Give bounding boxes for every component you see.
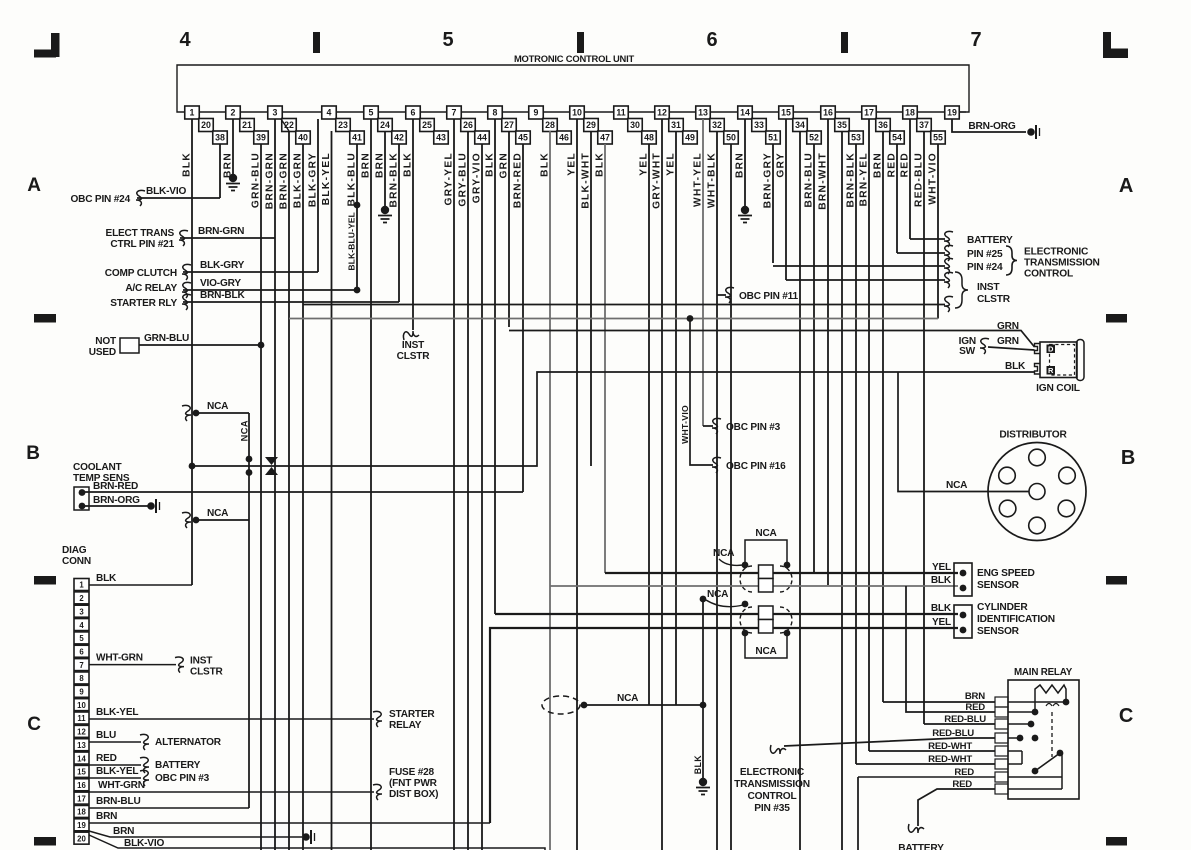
wire pin10 YEL [576,119,578,850]
svg-text:RED-WHT: RED-WHT [928,741,972,752]
svg-text:50: 50 [726,133,736,143]
wire pin38 [219,144,221,198]
svg-text:YEL: YEL [932,617,951,628]
MCU pin box 34 [793,119,808,132]
diag conn pin box 9 [74,685,89,697]
svg-text:18: 18 [77,808,86,817]
ground pin14 [741,206,749,214]
wire diag20 BRN splice [89,831,302,837]
MCU pin box 16 [821,106,836,119]
wire pin34 [799,131,801,850]
MCU pin box 25 [420,119,435,132]
svg-text:5: 5 [369,108,374,118]
wire pin14 BRN [744,119,746,207]
cylinder id sensor box [954,605,972,638]
svg-text:VIO-GRY: VIO-GRY [200,278,241,289]
svg-text:DISTRIBUTOR: DISTRIBUTOR [999,430,1067,441]
svg-text:WHT-BLK: WHT-BLK [707,152,718,208]
diag conn pin box 17 [74,792,89,804]
squiggle battery bottom [908,824,924,833]
svg-text:41: 41 [352,133,362,143]
svg-text:BRN-GRN: BRN-GRN [279,152,290,209]
svg-text:20: 20 [77,834,86,843]
wire pin5 BRN [370,119,372,850]
MCU pin box 30 [628,119,643,132]
svg-text:BLK-VIO: BLK-VIO [124,838,164,849]
svg-text:BLK-YEL: BLK-YEL [321,152,332,205]
MCU pin box 24 [378,119,393,132]
ign coil body [1040,342,1077,378]
MCU pin box 29 [584,119,599,132]
svg-text:BLK: BLK [485,152,496,177]
wire RED-BLU 2 relay [784,738,995,746]
ground pin24 [381,206,389,214]
svg-text:28: 28 [545,120,555,130]
edge tick left 2 [34,837,56,846]
junction dots x249 [246,456,253,463]
junction dot WHT-VIO [687,315,694,322]
wire pin45 BRN-RED [522,144,524,492]
wire diag14 RED [89,764,141,766]
wire pin32 to OBC PIN 11 [717,294,726,296]
svg-text:D: D [1048,345,1054,354]
wire diag7 WHT-GRN [89,664,176,666]
MCU pin box 52 [807,131,822,144]
wire WHT-VIO branch [690,319,713,466]
svg-text:USED: USED [89,347,116,358]
svg-text:BRN-RED: BRN-RED [93,481,138,492]
junction dots sensor A [742,562,749,569]
svg-text:19: 19 [947,108,957,118]
svg-text:45: 45 [518,133,528,143]
wire NCA stub 1 [196,412,249,414]
svg-text:1: 1 [190,108,195,118]
wire RED 4 relay battery [918,789,995,826]
wire pin3 BRN-GRN [274,119,276,850]
wire pin39 GRN-BLU [260,144,262,850]
splice pin19 BRN-ORG [1027,128,1035,136]
diag conn pin box 19 [74,819,89,831]
squiggle NCA 2 [182,512,191,528]
svg-text:13: 13 [77,741,86,750]
svg-text:17: 17 [77,794,86,803]
wire pin55 WHT-VIO [937,144,939,319]
svg-text:51: 51 [768,133,778,143]
svg-text:8: 8 [79,674,84,683]
MCU pin box 46 [557,131,572,144]
squiggle IGN SW [980,338,989,354]
squiggle OBC PIN 3 [712,418,721,434]
svg-text:WHT-YEL: WHT-YEL [693,152,704,207]
diag conn pin box 5 [74,632,89,644]
svg-text:BLK-GRN: BLK-GRN [293,152,304,208]
relay dashed link [1051,712,1053,757]
MCU pin box 7 [447,106,462,119]
wire pin16 BRN-WHT [827,119,829,585]
svg-text:RED: RED [900,152,911,177]
squiggle NCA 1 [182,405,191,421]
svg-text:12: 12 [77,728,86,737]
wire RED-WHT 1 relay [869,750,995,752]
svg-text:NCA: NCA [707,589,729,600]
svg-text:13: 13 [698,108,708,118]
squiggle a/c relay [182,282,191,298]
MCU pin box 9 [529,106,544,119]
relay switch arm [1035,753,1060,771]
svg-text:SENSOR: SENSOR [977,626,1020,637]
wire pin3 BRN-GRN to elect trans [180,237,275,239]
wire pin42 BRN-BLK [398,144,400,302]
svg-text:GRY-VIO: GRY-VIO [472,152,483,203]
edge tick left 1 [34,576,56,585]
svg-text:A: A [27,175,41,196]
svg-text:WHT-GRN: WHT-GRN [98,780,145,791]
diag conn pin box 8 [74,672,89,684]
wire diag15 BLK-YEL [89,777,141,779]
svg-text:40: 40 [298,133,308,143]
MCU pin box 33 [752,119,767,132]
wire GRN-BLU not used [139,344,261,346]
junction dot NCA 1 [193,410,200,417]
svg-text:BATTERY: BATTERY [155,760,201,771]
svg-text:4: 4 [180,29,192,51]
svg-text:BRN-BLK: BRN-BLK [389,152,400,208]
svg-text:BLK-YEL: BLK-YEL [96,766,138,777]
wire x703 down [702,599,704,780]
main relay box [1008,680,1079,799]
MCU pin box 44 [475,131,490,144]
svg-text:BLK: BLK [96,573,117,584]
MCU pin box 38 [213,131,228,144]
wire RED 3 relay [858,776,995,778]
diag conn pin box 10 [74,699,89,711]
svg-text:BLK: BLK [931,603,952,614]
svg-text:BLK: BLK [693,755,703,775]
MCU pin box 37 [917,119,932,132]
svg-text:9: 9 [534,108,539,118]
wire WHT-VIO bus y318 [289,318,938,320]
svg-text:BLK-GRY: BLK-GRY [308,152,319,207]
svg-text:CTRL PIN #21: CTRL PIN #21 [110,239,174,250]
svg-text:53: 53 [851,133,861,143]
svg-text:16: 16 [77,781,86,790]
brace inst clstr [955,272,968,308]
svg-text:21: 21 [242,120,252,130]
svg-text:11: 11 [77,714,86,723]
svg-text:CYLINDER: CYLINDER [977,602,1028,613]
wire YEL cyl id [490,628,958,823]
MCU pin box 14 [738,106,753,119]
svg-text:35: 35 [837,120,847,130]
crank sensor A connector [759,565,774,579]
wire pin36 BRN [882,131,884,702]
svg-text:BRN-WHT: BRN-WHT [818,152,829,210]
svg-text:GRN-BLU: GRN-BLU [251,152,262,208]
svg-text:BLK: BLK [1005,361,1026,372]
wire diag11 BLK-YEL [89,718,374,720]
diag conn pin box 12 [74,725,89,737]
wire pin44 GRY-VIO [481,144,483,850]
svg-text:MOTRONIC CONTROL UNIT: MOTRONIC CONTROL UNIT [514,53,635,64]
svg-text:BRN-GRY: BRN-GRY [763,152,774,208]
wire pin38 BLK-VIO to OBC PIN 24 [137,197,220,199]
svg-text:BLK-BLU-YEL: BLK-BLU-YEL [347,212,357,271]
wire pin23 BLK-YEL [331,131,333,850]
svg-text:BRN-BLK: BRN-BLK [200,290,245,301]
diag conn pin box 16 [74,779,89,791]
svg-text:54: 54 [892,133,902,143]
svg-text:C: C [1119,705,1133,727]
junction dot pin1 coil bus [189,463,196,470]
svg-text:RED-BLU: RED-BLU [944,714,986,725]
svg-text:27: 27 [504,120,514,130]
junction dot pin39 not-used [258,342,265,349]
wire pin4 BLK-GRY [317,119,319,272]
svg-text:GRY-WHT: GRY-WHT [652,152,663,209]
wire pin29 BLK-WHT [590,131,592,466]
svg-text:GRY-YEL: GRY-YEL [444,152,455,205]
wire BRN-RED coolant [82,491,523,493]
svg-text:BLK: BLK [540,152,551,177]
svg-text:6: 6 [79,647,84,656]
MCU pin box 39 [254,131,269,144]
svg-text:NCA: NCA [946,480,968,491]
grid tick 4/5 [313,32,320,53]
svg-text:GRN: GRN [997,336,1019,347]
edge tick right 0 [1106,314,1127,323]
wire pin54 RED to pin25 [897,252,945,254]
wire diag16 WHT-GRN [89,791,374,793]
wire pin12 GRY-WHT [661,119,663,850]
svg-text:2: 2 [231,108,236,118]
MCU pin box 15 [779,106,794,119]
svg-text:7: 7 [971,29,982,51]
MCU pin box 21 [240,119,255,132]
svg-text:ELECTRONIC: ELECTRONIC [740,767,805,778]
svg-text:CONTROL: CONTROL [1024,269,1073,280]
svg-text:OBC PIN #11: OBC PIN #11 [739,291,799,302]
svg-text:COOLANT: COOLANT [73,462,123,473]
svg-text:10: 10 [572,108,582,118]
squiggle inst clstr b [944,296,953,312]
wire RED-BLU 1 relay [924,723,995,725]
junction dots sensor B [742,630,749,637]
wire pin22 BRN-GRN [288,131,290,850]
svg-text:BLK-VIO: BLK-VIO [146,186,186,197]
squiggle pin24 [944,258,953,274]
svg-text:RELAY: RELAY [389,720,422,731]
squiggle diag7 [175,657,184,673]
MCU pin box 20 [199,119,214,132]
MCU pin box 31 [669,119,684,132]
svg-text:33: 33 [754,120,764,130]
svg-text:29: 29 [586,120,596,130]
svg-text:38: 38 [215,133,225,143]
wire pin54 RED [896,144,898,253]
svg-text:BLK-BLU: BLK-BLU [347,152,358,206]
wire pin40 BLK-GRN to inst clstr [303,304,945,306]
svg-text:TRANSMISSION: TRANSMISSION [1024,258,1100,269]
diag conn pin box 11 [74,712,89,724]
MCU pin box 5 [364,106,379,119]
svg-text:TRANSMISSION: TRANSMISSION [734,779,810,790]
squiggle battery [944,231,953,247]
svg-text:CLSTR: CLSTR [397,351,431,362]
diag conn pin box 20 [74,832,89,844]
svg-text:18: 18 [905,108,915,118]
MCU pin box 11 [614,106,629,119]
junction dot NCA oval right [700,702,707,709]
wire GRN ign [509,331,1035,348]
svg-text:CONTROL: CONTROL [748,791,797,802]
svg-text:STARTER: STARTER [389,709,435,720]
wire pin52 BRN-BLU [813,144,815,572]
svg-text:INST: INST [190,656,213,667]
MCU pin box 12 [655,106,670,119]
ground pin2 [229,174,237,182]
relay contact marks [1046,704,1059,707]
svg-text:3: 3 [79,607,84,616]
diag conn pin box 14 [74,752,89,764]
diag conn pin box 18 [74,805,89,817]
MCU pin box 35 [835,119,850,132]
wire pin50 [730,144,732,850]
svg-text:55: 55 [933,133,943,143]
diag conn pin box 7 [74,659,89,671]
svg-text:WHT-VIO: WHT-VIO [928,152,939,205]
svg-text:6: 6 [411,108,416,118]
MCU pin box 54 [890,131,905,144]
svg-text:42: 42 [394,133,404,143]
wire pin40 BLK-GRN [302,144,304,850]
MCU pin box 49 [683,131,698,144]
svg-text:5: 5 [79,634,84,643]
svg-text:IGN COIL: IGN COIL [1036,383,1080,394]
wire pin41 BLK-BLU-YEL seg [356,205,358,290]
wire pin27 GRN [508,131,510,327]
MCU pin box 2 [226,106,241,119]
svg-text:OBC PIN #3: OBC PIN #3 [726,422,781,433]
wire BRN-ORG coolant [82,505,148,507]
diag conn pin box 6 [74,645,89,657]
svg-text:31: 31 [671,120,681,130]
svg-text:16: 16 [823,108,833,118]
MCU pin box 8 [488,106,503,119]
svg-text:14: 14 [77,754,86,763]
diag conn pin box 13 [74,739,89,751]
svg-text:14: 14 [740,108,750,118]
svg-text:34: 34 [795,120,805,130]
svg-text:BATTERY: BATTERY [967,235,1013,246]
svg-text:ALTERNATOR: ALTERNATOR [155,737,222,748]
svg-text:PIN #35: PIN #35 [754,803,790,814]
wire BLK cyl id [495,613,958,615]
ground x703 [699,778,707,786]
svg-text:RED: RED [965,702,985,713]
MCU pin box 41 [350,131,365,144]
svg-text:RED-BLU: RED-BLU [932,728,974,739]
MCU pin box 43 [434,131,449,144]
svg-text:BRN-GRN: BRN-GRN [198,226,244,237]
MCU pin box 13 [696,106,711,119]
svg-text:7: 7 [79,661,83,670]
wire pin51 BRN-GRY to pin24 [773,265,945,267]
svg-text:BATTERY: BATTERY [898,843,944,850]
wire GRN ign sw [988,347,1035,350]
MCU pin box 22 [282,119,297,132]
splice BRN-ORG coolant [147,502,155,510]
squiggle inst clstr a [944,272,953,288]
svg-text:1: 1 [79,581,84,590]
edge tick left 0 [34,314,56,323]
MCU pin box 36 [876,119,891,132]
svg-text:WHT-GRN: WHT-GRN [96,653,143,664]
MCU pin box 23 [336,119,351,132]
squiggle ETC pin35 [770,745,786,754]
MCU pin box 4 [322,106,337,119]
ign coil terminal D [1047,345,1056,354]
squiggle alternator [140,734,149,750]
wire pin41 BLK-BLU [356,144,358,205]
MCU pin box 47 [598,131,613,144]
svg-text:CLSTR: CLSTR [977,294,1011,305]
MCU pin box 17 [862,106,877,119]
NCA bracket sensor A [745,540,787,565]
wire pin31 YEL [675,131,677,705]
svg-text:GRN-BLU: GRN-BLU [144,333,189,344]
svg-text:44: 44 [477,133,487,143]
svg-text:BLK: BLK [182,152,193,177]
MCU pin box 45 [516,131,531,144]
svg-text:RED: RED [887,152,898,177]
wire pin19 BRN-ORG [952,119,1026,132]
wire diag18 BRN-BLU [89,807,249,809]
svg-text:IDENTIFICATION: IDENTIFICATION [977,614,1055,625]
squiggle OBC PIN 16 [712,457,721,473]
svg-text:NCA: NCA [755,528,777,539]
svg-text:4: 4 [327,108,332,118]
splice diag20 BRN [302,833,310,841]
junction dot NCA 2 [193,517,200,524]
svg-text:(FNT PWR: (FNT PWR [389,778,438,789]
svg-text:NCA: NCA [713,548,735,559]
svg-text:OBC PIN #16: OBC PIN #16 [726,461,786,472]
svg-text:OBC PIN #3: OBC PIN #3 [155,773,210,784]
grid tick 5/6 [577,32,584,53]
svg-text:36: 36 [878,120,888,130]
svg-text:SENSOR: SENSOR [977,580,1020,591]
svg-text:BRN-ORG: BRN-ORG [968,121,1016,132]
svg-text:CONN: CONN [62,556,91,567]
svg-text:GRY: GRY [776,152,787,178]
svg-text:37: 37 [919,120,929,130]
wire pin8 BLK [494,119,496,614]
wire pin28 BLK [549,131,551,850]
wire pin47 BLK [604,144,606,573]
diag conn pin box 4 [74,619,89,631]
wire pin24 BRN [384,131,386,206]
svg-text:GRN: GRN [997,321,1019,332]
wire diag20 BLK-VIO [89,835,545,850]
NCA bracket sensor B [745,633,787,658]
svg-text:20: 20 [201,120,211,130]
squiggle elect trans [179,230,188,246]
junction dot x703 [700,596,707,603]
diag conn pin box 1 [74,579,89,591]
wire pin51 BRN-GRY [772,144,774,263]
svg-text:PIN #24: PIN #24 [967,262,1003,273]
svg-text:RED-BLU: RED-BLU [914,152,925,207]
